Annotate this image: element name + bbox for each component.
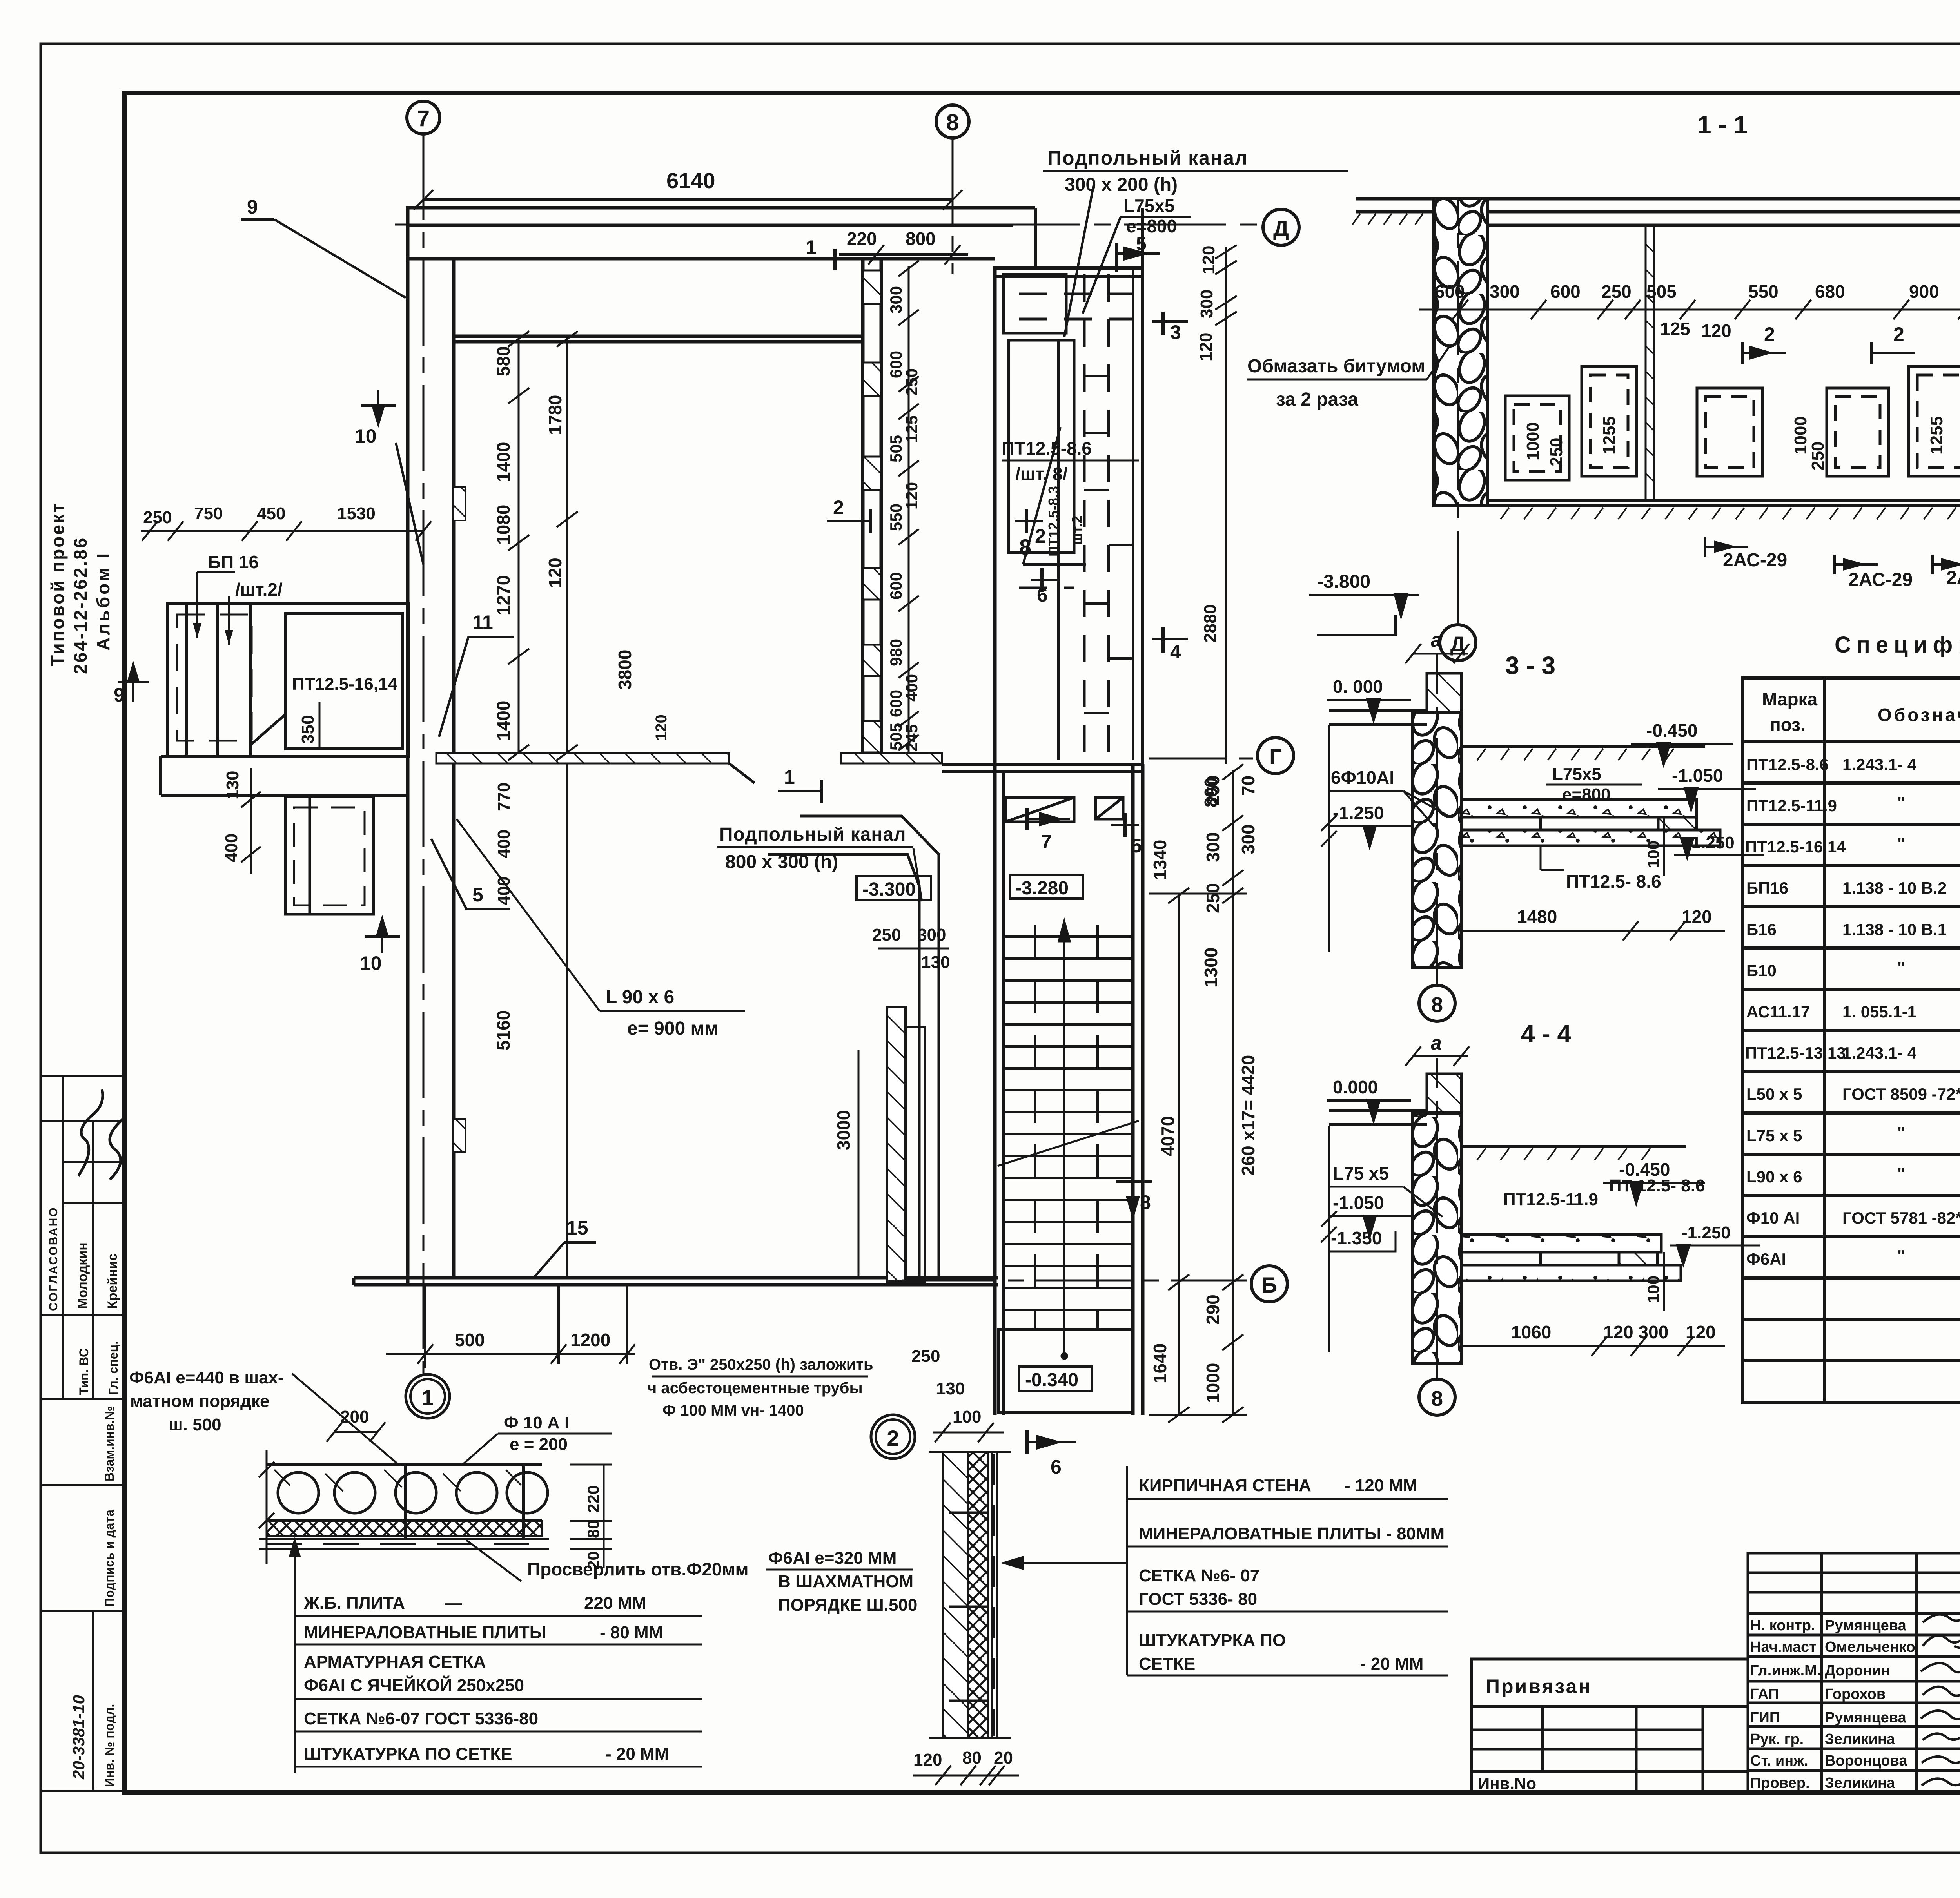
svg-text:Спецификация: Спецификация: [1835, 632, 1960, 658]
svg-text:АРМАТУРНАЯ СЕТКА: АРМАТУРНАЯ СЕТКА: [304, 1652, 486, 1671]
svg-text:300: 300: [1197, 290, 1216, 318]
note Ф6АI e=440: [129, 1368, 284, 1434]
svg-text:- 80 ММ: - 80 ММ: [600, 1623, 663, 1642]
svg-text:1: 1: [421, 1385, 434, 1410]
arrow from list to wall: [1004, 1557, 1127, 1569]
ground hatch below floor: [1501, 508, 1960, 519]
level -1.050 left: [1329, 1193, 1411, 1235]
svg-text:800: 800: [1201, 777, 1221, 807]
svg-text:Просверлить отв.Ф20мм: Просверлить отв.Ф20мм: [527, 1559, 749, 1579]
svg-text:6: 6: [1037, 584, 1048, 606]
svg-text:1000: 1000: [1203, 1363, 1223, 1403]
signatures scribbles: [78, 1089, 103, 1176]
svg-text:20: 20: [994, 1748, 1013, 1767]
svg-text:80: 80: [584, 1520, 603, 1538]
brick wall layer: [943, 1452, 968, 1738]
svg-text:матном порядке: матном порядке: [130, 1392, 269, 1411]
level 0.000: [1327, 676, 1411, 719]
rubble wall: [1413, 712, 1461, 967]
right list box: [1126, 1466, 1128, 1675]
svg-text:Гл.инж.М.: Гл.инж.М.: [1750, 1662, 1821, 1679]
svg-text:Марка: Марка: [1762, 689, 1818, 709]
dim 220 800: [839, 228, 968, 265]
svg-text:-0.450: -0.450: [1646, 720, 1697, 741]
svg-text:Обозначение: Обозначение: [1878, 705, 1960, 725]
svg-text:-1.050: -1.050: [1672, 765, 1723, 786]
svg-text:300: 300: [1238, 824, 1258, 854]
svg-text:600: 600: [1435, 281, 1465, 302]
svg-text:Подпольный канал: Подпольный канал: [719, 824, 906, 845]
svg-text:1480: 1480: [1517, 906, 1557, 927]
svg-text:5160: 5160: [493, 1010, 514, 1050]
svg-text:600: 600: [1550, 281, 1581, 302]
stair flight break line: [998, 1121, 1139, 1166]
svg-text:130: 130: [921, 953, 950, 972]
svg-text:10: 10: [360, 952, 382, 974]
duct solid verticals: [1058, 268, 1133, 760]
label L75x5: [1329, 1163, 1443, 1217]
axis Б dash-dot: [902, 1280, 1247, 1282]
labels ПТ slabs: [1503, 1176, 1705, 1209]
left dim ticks: [259, 1450, 274, 1564]
svg-text:- 20 ММ: - 20 ММ: [1360, 1654, 1423, 1673]
stair shaft walls: [995, 764, 1143, 1415]
layers list left: [290, 1540, 702, 1773]
svg-text:1640: 1640: [1150, 1343, 1170, 1383]
svg-text:ГАП: ГАП: [1750, 1686, 1779, 1702]
axis 7 circle: [407, 101, 440, 134]
mark ПТ12.5-16.14 plan label: [218, 578, 221, 582]
svg-text:2: 2: [1764, 323, 1775, 345]
interior hatched partition: [436, 753, 942, 783]
svg-text:8: 8: [1019, 535, 1031, 559]
svg-text:ПТ12.5-16.14: ПТ12.5-16.14: [1745, 838, 1846, 856]
svg-text:4070: 4070: [1158, 1116, 1178, 1156]
svg-text:ПТ12.5-13.13: ПТ12.5-13.13: [1745, 1044, 1846, 1062]
label ПТ12.5-8.6 шт.8: [1002, 438, 1092, 484]
svg-text:1060: 1060: [1511, 1322, 1551, 1342]
svg-text:11: 11: [472, 611, 493, 633]
porch dim line 250 750 450 1530: [141, 521, 431, 541]
svg-text:220 ММ: 220 ММ: [584, 1593, 646, 1613]
svg-text:250: 250: [1547, 438, 1566, 466]
svg-text:Инв.No: Инв.No: [1478, 1774, 1536, 1793]
svg-text:КИРПИЧНАЯ СТЕНА: КИРПИЧНАЯ СТЕНА: [1139, 1476, 1311, 1495]
louver boxes at row Г: [1005, 798, 1123, 822]
stair lower landing: [999, 1329, 1133, 1413]
svg-text:МИНЕРАЛОВАТНЫЕ ПЛИТЫ - 80ММ: МИНЕРАЛОВАТНЫЕ ПЛИТЫ - 80ММ: [1139, 1524, 1445, 1543]
svg-text:1.243.1- 4: 1.243.1- 4: [1842, 755, 1917, 774]
svg-text:Г: Г: [1269, 744, 1282, 769]
svg-text:МИНЕРАЛОВАТНЫЕ ПЛИТЫ: МИНЕРАЛОВАТНЫЕ ПЛИТЫ: [304, 1623, 546, 1642]
svg-text:ПТ12.5- 8.6: ПТ12.5- 8.6: [1566, 871, 1661, 892]
svg-text:400: 400: [902, 674, 921, 702]
svg-text:СОГЛАСОВАНО: СОГЛАСОВАНО: [47, 1206, 60, 1311]
duct rungs: [1084, 376, 1133, 713]
svg-text:Альбом I: Альбом I: [93, 551, 113, 651]
svg-text:600: 600: [887, 572, 905, 600]
svg-text:Нач.маст: Нач.маст: [1750, 1639, 1817, 1655]
axis Д circle below section: [1440, 198, 1476, 661]
level -3.800 left: [1309, 571, 1419, 635]
wall band between room and vent chamber: [863, 259, 995, 764]
svg-text:e=800: e=800: [1562, 785, 1611, 804]
svg-text:7: 7: [417, 106, 430, 131]
svg-text:120: 120: [653, 714, 670, 741]
svg-text:400: 400: [222, 834, 241, 862]
svg-text:4: 4: [1170, 641, 1181, 663]
svg-text:9: 9: [247, 196, 258, 218]
svg-text:220: 220: [847, 228, 877, 249]
top slab lines: [1356, 199, 1960, 225]
svg-text:/шт. 8/: /шт. 8/: [1015, 464, 1068, 484]
label 15 with leader: [533, 1217, 596, 1278]
svg-text:-1.350: -1.350: [1331, 1228, 1382, 1248]
svg-text:4 - 4: 4 - 4: [1521, 1020, 1571, 1048]
dim 3000 vertical right of canal: [858, 1050, 860, 1276]
svg-text:980: 980: [887, 639, 905, 666]
porch outline: [167, 604, 408, 756]
svg-text:L75 х5: L75 х5: [1333, 1163, 1389, 1184]
floor slab left: [1329, 1111, 1427, 1125]
dims 1480 120: [1461, 921, 1725, 941]
interior wall row Д-Г: [454, 336, 863, 342]
axis 8 circle: [1419, 654, 1455, 1021]
svg-text:6140: 6140: [666, 168, 715, 193]
svg-text:300: 300: [917, 925, 946, 944]
dim 5160: [493, 1010, 514, 1050]
svg-text:ПТ12.5-8.6: ПТ12.5-8.6: [1002, 438, 1092, 459]
section mark 5 right: [1111, 813, 1142, 857]
svg-text:1.138 - 10 В.1: 1.138 - 10 В.1: [1842, 920, 1947, 939]
svg-text:0.000: 0.000: [1333, 1077, 1378, 1097]
porch labels БП16 шт.2: [208, 552, 283, 600]
svg-text:СЕТКА №6-07 ГОСТ 5336-80: СЕТКА №6-07 ГОСТ 5336-80: [304, 1709, 538, 1728]
svg-text:- 20 ММ: - 20 ММ: [606, 1744, 669, 1764]
bottom dims 120 80 20: [913, 1766, 1019, 1785]
level box -0.340: [1019, 1367, 1092, 1391]
vent chamber inner duct box tall: [1009, 340, 1074, 553]
right dim chain of chamber: [1215, 245, 1237, 764]
svg-text:за 2 раза: за 2 раза: [1276, 389, 1358, 410]
svg-text:ПТ12.5-8.6: ПТ12.5-8.6: [1746, 755, 1829, 774]
svg-text:L50 х 5: L50 х 5: [1746, 1085, 1802, 1103]
svg-text:10: 10: [355, 425, 377, 447]
svg-text:ГОСТ 8509 -72*: ГОСТ 8509 -72*: [1842, 1085, 1960, 1103]
svg-text:120 300: 120 300: [1603, 1322, 1668, 1342]
left vertical dim: [1321, 1126, 1337, 1352]
svg-text:120: 120: [913, 1750, 942, 1769]
svg-text:80: 80: [962, 1748, 982, 1767]
rubble wall: [1413, 1113, 1461, 1364]
svg-text:L75х5: L75х5: [1552, 765, 1601, 784]
mesh+plaster lines: [992, 1452, 997, 1738]
bottom floor lines: [1488, 500, 1960, 506]
sidebar approval table: [41, 1076, 124, 1791]
svg-text:L75х5: L75х5: [1123, 196, 1174, 216]
left exterior wall band: [408, 208, 454, 1285]
svg-text:Б10: Б10: [1746, 961, 1777, 980]
svg-text:а: а: [1431, 1032, 1442, 1054]
svg-text:ГОСТ 5781 -82*: ГОСТ 5781 -82*: [1842, 1209, 1960, 1227]
section mark 3: [1152, 312, 1188, 343]
label 11 with leader: [439, 611, 514, 737]
svg-text:350: 350: [298, 715, 318, 744]
spec table grid: [1743, 678, 1960, 1403]
brick top of wall: [1427, 1074, 1461, 1113]
top exterior wall band: [406, 208, 1035, 259]
dims 1060 120 300 120: [1461, 1336, 1725, 1356]
hollow cores: [278, 1472, 548, 1513]
svg-text:ПТ12.5-11.9: ПТ12.5-11.9: [1503, 1190, 1598, 1209]
insulation cross hatch layer: [267, 1521, 542, 1536]
dim 100: [1644, 1252, 1664, 1311]
svg-text:Инв. № подл.: Инв. № подл.: [102, 1704, 116, 1787]
svg-text:Ж.Б. ПЛИТА: Ж.Б. ПЛИТА: [303, 1593, 405, 1613]
svg-text:20-3381-10: 20-3381-10: [69, 1695, 88, 1780]
axis 8 circle: [936, 105, 969, 138]
svg-text:900: 900: [1909, 281, 1939, 302]
svg-text:1200: 1200: [570, 1330, 610, 1350]
svg-text:250: 250: [1808, 442, 1828, 470]
svg-text:15: 15: [566, 1217, 588, 1239]
dim 200: [327, 1407, 385, 1442]
svg-text:3000: 3000: [833, 1110, 854, 1150]
svg-text:-1.050: -1.050: [1333, 1193, 1384, 1213]
vent chamber inner duct box top: [1004, 274, 1066, 333]
axis 8 centerline: [952, 138, 954, 274]
section mark 4: [1152, 627, 1188, 663]
porch slab (ПТ12.5-16.14): [286, 614, 403, 749]
svg-text:250: 250: [902, 368, 921, 396]
svg-text:250: 250: [872, 925, 901, 944]
label 8 with leader: [1019, 427, 1086, 564]
svg-text:8: 8: [1140, 1191, 1151, 1213]
section mark 5 top: [1116, 234, 1160, 272]
svg-text:9: 9: [114, 684, 125, 706]
svg-text:ПТ 12.5- 8.6: ПТ 12.5- 8.6: [1609, 1176, 1705, 1195]
level -0.450: [1603, 1159, 1705, 1202]
floor slab left: [1329, 710, 1427, 724]
svg-text:": ": [1897, 834, 1905, 853]
svg-text:5: 5: [1136, 234, 1147, 254]
svg-text:120: 120: [1682, 906, 1712, 927]
svg-text:1270: 1270: [493, 575, 514, 615]
svg-text:Ф6АI С ЯЧЕЙКОЙ 250х250: Ф6АI С ЯЧЕЙКОЙ 250х250: [304, 1675, 524, 1695]
canal polyline in plan: [768, 816, 939, 1278]
bottom mesh/plaster lines: [259, 1539, 549, 1549]
svg-text:500: 500: [455, 1330, 485, 1350]
svg-text:Отв. Э" 250х250 (h) заложить: Отв. Э" 250х250 (h) заложить: [649, 1356, 873, 1373]
top/bottom edge ticks: [929, 1452, 1011, 1738]
svg-text:ГИП: ГИП: [1750, 1709, 1780, 1726]
svg-text:250: 250: [1601, 281, 1632, 302]
inner hatched partition: [1646, 226, 1654, 500]
svg-text:2АС-29: 2АС-29: [1848, 569, 1913, 590]
svg-text:Ф 10 А I: Ф 10 А I: [504, 1413, 569, 1432]
vertical ticks below bottom wall: [425, 1285, 627, 1368]
svg-text:125: 125: [1660, 319, 1690, 339]
bottom exterior wall band: [354, 1278, 998, 1285]
dim chain vertical A (x1323): [508, 331, 529, 760]
svg-text:": ": [1897, 1164, 1905, 1183]
svg-text:5: 5: [1131, 835, 1142, 857]
svg-text:ш. 500: ш. 500: [169, 1415, 221, 1434]
section mark 6 bottom: [1027, 1430, 1076, 1478]
axis 7 centerline: [423, 134, 425, 1374]
mark 10 bottom: [360, 920, 400, 974]
svg-text:БП16: БП16: [1746, 879, 1788, 897]
insulation layer: [968, 1452, 988, 1738]
svg-text:2: 2: [833, 497, 844, 518]
ground right: [1461, 747, 1705, 760]
svg-text:Ф6АI e=320 ММ: Ф6АI e=320 ММ: [768, 1548, 897, 1568]
svg-text:120: 120: [545, 558, 565, 588]
svg-text:580: 580: [493, 346, 514, 376]
svg-text:Подпись и дата: Подпись и дата: [102, 1510, 116, 1607]
svg-text:-3.800: -3.800: [1317, 571, 1370, 592]
svg-text:Провер.: Провер.: [1750, 1775, 1810, 1791]
svg-text:L 90 х 6: L 90 х 6: [606, 987, 674, 1008]
svg-text:1080: 1080: [493, 505, 514, 545]
sidebar stamp: project name (rotated): [47, 502, 113, 674]
svg-text:- 120 ММ: - 120 ММ: [1345, 1476, 1417, 1495]
svg-text:505: 505: [1646, 281, 1677, 302]
rotated small labels inside chamber: [1045, 486, 1085, 557]
label L90x6 e=900: [606, 987, 719, 1039]
svg-text:290: 290: [1203, 1294, 1223, 1325]
canal slabs: [1461, 799, 1720, 846]
svg-text:Ф6АI e=440 в шах-: Ф6АI e=440 в шах-: [129, 1368, 284, 1387]
svg-text:770: 770: [494, 783, 514, 811]
axis D circle: [1263, 209, 1299, 245]
svg-text:6: 6: [1051, 1456, 1062, 1478]
section mark 8 mid: [1116, 1182, 1152, 1215]
slab concrete texture: [274, 1470, 521, 1491]
section mark 1 mid: [778, 766, 821, 803]
left vertical dim: [1321, 725, 1337, 952]
svg-text:-0.340: -0.340: [1025, 1370, 1078, 1390]
svg-text:0. 000: 0. 000: [1333, 676, 1383, 697]
leader to wall from 10: [396, 443, 423, 564]
level box -3.280: [1010, 875, 1083, 899]
porch 350 dim: [298, 715, 318, 744]
svg-text:120: 120: [1686, 1322, 1716, 1342]
svg-text:L75 х 5: L75 х 5: [1746, 1126, 1802, 1145]
svg-text:400: 400: [494, 830, 514, 858]
svg-text:Д: Д: [1273, 216, 1289, 241]
svg-text:550: 550: [1748, 281, 1779, 302]
svg-text:Тип. ВС: Тип. ВС: [77, 1348, 91, 1395]
chamber bottom wall / shaft top: [942, 764, 1143, 771]
svg-text:Зеликина: Зеликина: [1825, 1775, 1895, 1791]
svg-text:Румянцева: Румянцева: [1825, 1617, 1907, 1634]
slab cross-section: top line: [267, 1465, 542, 1521]
svg-text:/шт.2/: /шт.2/: [235, 579, 283, 600]
svg-text:Горохов: Горохов: [1825, 1686, 1886, 1702]
svg-text:800: 800: [906, 228, 936, 249]
svg-text:ПОРЯДКЕ Ш.500: ПОРЯДКЕ Ш.500: [778, 1595, 917, 1615]
svg-text:Омельченко: Омельченко: [1825, 1639, 1915, 1655]
svg-text:Зеликина: Зеликина: [1825, 1731, 1895, 1748]
привязан table: [1472, 1659, 1748, 1793]
section mark 6 inner: [1031, 568, 1058, 606]
svg-text:e= 900 мм: e= 900 мм: [627, 1018, 719, 1039]
dim a: [1405, 629, 1469, 663]
svg-text:1340: 1340: [1150, 840, 1170, 880]
svg-text:2: 2: [1893, 323, 1904, 345]
dim 100: [1644, 817, 1664, 876]
svg-text:Воронцова: Воронцова: [1825, 1753, 1907, 1769]
dim a: [1405, 1032, 1469, 1066]
svg-text:1530: 1530: [337, 504, 376, 523]
svg-text:120: 120: [1196, 333, 1216, 361]
ground hatch left of wall: [1352, 214, 1423, 225]
section mark 2 inner: [1015, 509, 1046, 547]
label Подпольный канал 300х200: [1047, 147, 1248, 195]
axis 2 circle (double): [871, 1415, 915, 1459]
svg-text:680: 680: [1815, 281, 1845, 302]
svg-text:1 - 1: 1 - 1: [1697, 111, 1748, 139]
svg-text:2АС-29: 2АС-29: [1723, 550, 1787, 571]
svg-text:ШТУКАТУРКА ПО СЕТКЕ: ШТУКАТУРКА ПО СЕТКЕ: [304, 1744, 512, 1764]
svg-text:-3.300: -3.300: [862, 879, 916, 900]
canal slabs: [1461, 1235, 1681, 1281]
rebar ties: [949, 1513, 988, 1701]
svg-text:3800: 3800: [615, 650, 635, 690]
svg-text:200: 200: [340, 1407, 369, 1427]
porch bottom band: [161, 756, 408, 795]
svg-text:300: 300: [887, 286, 905, 314]
bottom dim line 500 1200: [386, 1344, 635, 1364]
svg-text:1.138 - 10 В.2: 1.138 - 10 В.2: [1842, 879, 1947, 897]
svg-text:250: 250: [1203, 883, 1223, 913]
svg-text:1780: 1780: [545, 395, 565, 435]
svg-text:2880: 2880: [1201, 604, 1220, 643]
right dim chains near stair: [1149, 764, 1247, 1423]
level box -3.300: [857, 876, 931, 900]
mark 9 arrow left: [114, 666, 149, 706]
label 5 with leader: [431, 839, 510, 909]
svg-text:Ф10 АI: Ф10 АI: [1746, 1209, 1800, 1227]
level -1.250 left: [1329, 803, 1411, 845]
svg-text:-1.250: -1.250: [1333, 803, 1384, 823]
svg-text:ГОСТ 5336- 80: ГОСТ 5336- 80: [1139, 1590, 1257, 1609]
svg-text:—: —: [445, 1593, 462, 1613]
axis Б circle: [1251, 1266, 1287, 1302]
stair treads: [1004, 937, 1133, 1310]
note Отв.Э 250х250: [648, 1356, 873, 1419]
level -1.250 right: [1670, 1223, 1760, 1263]
label Ф6АI e=320: [768, 1548, 917, 1615]
svg-text:В ШАХМАТНОМ: В ШАХМАТНОМ: [778, 1572, 913, 1591]
svg-text:100: 100: [953, 1407, 981, 1427]
dim chain left mid: 770 400 400: [494, 783, 514, 905]
svg-text:245: 245: [902, 724, 921, 752]
svg-text:250: 250: [911, 1347, 940, 1366]
svg-text:1000: 1000: [1523, 422, 1543, 460]
svg-text:СЕТКА №6- 07: СЕТКА №6- 07: [1139, 1566, 1259, 1585]
signature scribbles: [1921, 1615, 1960, 1786]
dim 100 top: [933, 1407, 1004, 1442]
svg-text:БП 16: БП 16: [208, 552, 259, 572]
svg-text:250: 250: [143, 508, 172, 527]
svg-text:300: 300: [1203, 832, 1223, 862]
svg-text:поз.: поз.: [1770, 714, 1806, 735]
svg-text:220: 220: [584, 1485, 603, 1513]
label L75x5 e=800: [1123, 196, 1177, 236]
svg-text:70: 70: [1238, 776, 1258, 796]
